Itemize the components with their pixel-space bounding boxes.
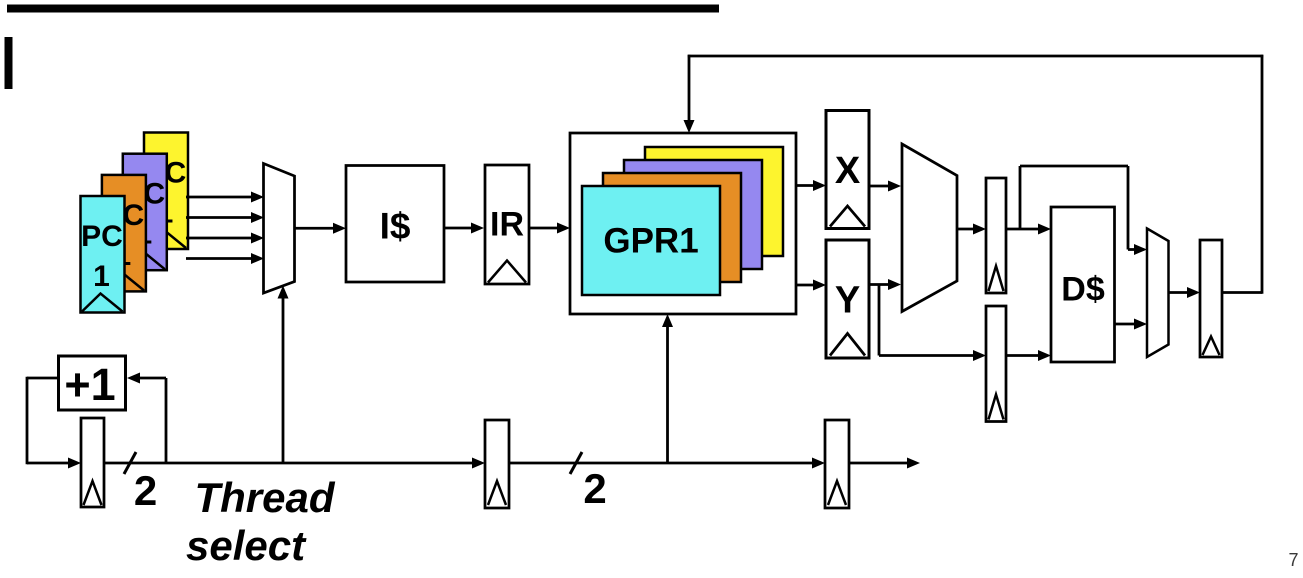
+1 incrementer box (59, 356, 126, 410)
pipeline register P2 (lower) (986, 306, 1006, 422)
wire thread select up into mux M1 bottom (278, 286, 289, 464)
wire Y to mux M2 (869, 279, 901, 290)
register IR (485, 165, 529, 284)
GPR bank 2 (orange) (603, 173, 741, 282)
left border remnant tick (5, 37, 13, 89)
svg-text:select: select (186, 522, 307, 569)
wire thread register feedback up into +1 (127, 373, 166, 464)
svg-text:Thread: Thread (195, 474, 336, 521)
wire thread select bus T1 to T2 (104, 458, 485, 469)
wire Y branch down to lower pipeline register (879, 285, 986, 362)
register Y (826, 240, 869, 358)
GPR bank 3 (purple) (624, 160, 762, 269)
register PC1 (cyan, front) (81, 196, 125, 313)
bus width slash 2 (570, 452, 582, 474)
mux M3 (writeback select) (1147, 229, 1169, 358)
wire thread select up into GPR bottom (662, 314, 673, 463)
wire writeback feedback loop to GPR (684, 55, 1264, 294)
thread select register T2 (485, 420, 509, 508)
register PC4 (yellow, back) (144, 133, 188, 250)
wire P2 to D$ (1006, 350, 1051, 361)
wire GPR to Y (796, 280, 826, 291)
svg-text:Y: Y (835, 280, 860, 322)
bus width slash 1 (124, 452, 136, 474)
wire mux M1 to I$ (295, 223, 347, 234)
mux M1 (PC select) (264, 164, 295, 294)
wire thread select bus T2 to T3 (509, 458, 825, 469)
label Thread select (186, 474, 336, 569)
wire PC2 to mux (input 2) (186, 212, 264, 223)
wire thread select output (849, 458, 920, 469)
wire X to mux M2 (869, 181, 901, 192)
svg-text:2: 2 (134, 467, 157, 514)
wire PC3 to mux (input 3) (186, 233, 264, 244)
wire IR to GPR (529, 223, 570, 234)
mux M2 (operand select) (902, 144, 957, 312)
wire PC1 to mux (input 1) (186, 192, 264, 203)
register X (826, 111, 869, 229)
svg-text:7: 7 (1289, 550, 1299, 570)
svg-text:X: X (835, 150, 861, 192)
register PC2 (orange) (102, 175, 146, 292)
wire mux M3 to writeback register (1169, 287, 1201, 298)
svg-text:1: 1 (93, 260, 110, 293)
wire mux M2 to upper pipeline register (957, 224, 986, 235)
svg-text:GPR1: GPR1 (603, 222, 698, 261)
svg-text:+1: +1 (64, 359, 115, 410)
wire P1 to D$ (1006, 224, 1051, 235)
GPR bank 4 (yellow, back) (645, 147, 783, 256)
register PC3 (purple) (123, 154, 167, 271)
svg-text:2: 2 (583, 465, 606, 512)
wire +1 output loop to thread register (27, 377, 81, 469)
data cache D$ (1051, 207, 1115, 362)
svg-text:I$: I$ (380, 206, 411, 247)
wire GPR to X (796, 180, 826, 191)
wire I$ to IR (444, 223, 484, 234)
instruction cache I$ (346, 166, 444, 283)
thread select register T1 (81, 418, 104, 507)
svg-text:D$: D$ (1061, 271, 1105, 309)
svg-text:PC: PC (81, 220, 123, 253)
wire bypass over D$ to mux M3 (1020, 166, 1147, 255)
GPR bank 1 (cyan, front) labelled GPR1 (582, 186, 720, 295)
wire PC4 to mux (input 4) (186, 253, 264, 264)
pipeline register P1 (upper) (986, 178, 1006, 293)
thread select register T3 (825, 420, 849, 508)
top border remnant bar (7, 5, 719, 13)
writeback register W (1200, 240, 1222, 357)
svg-text:IR: IR (490, 206, 524, 244)
GPR file outer box (570, 133, 796, 314)
wire D$ to mux M3 (1115, 319, 1148, 330)
